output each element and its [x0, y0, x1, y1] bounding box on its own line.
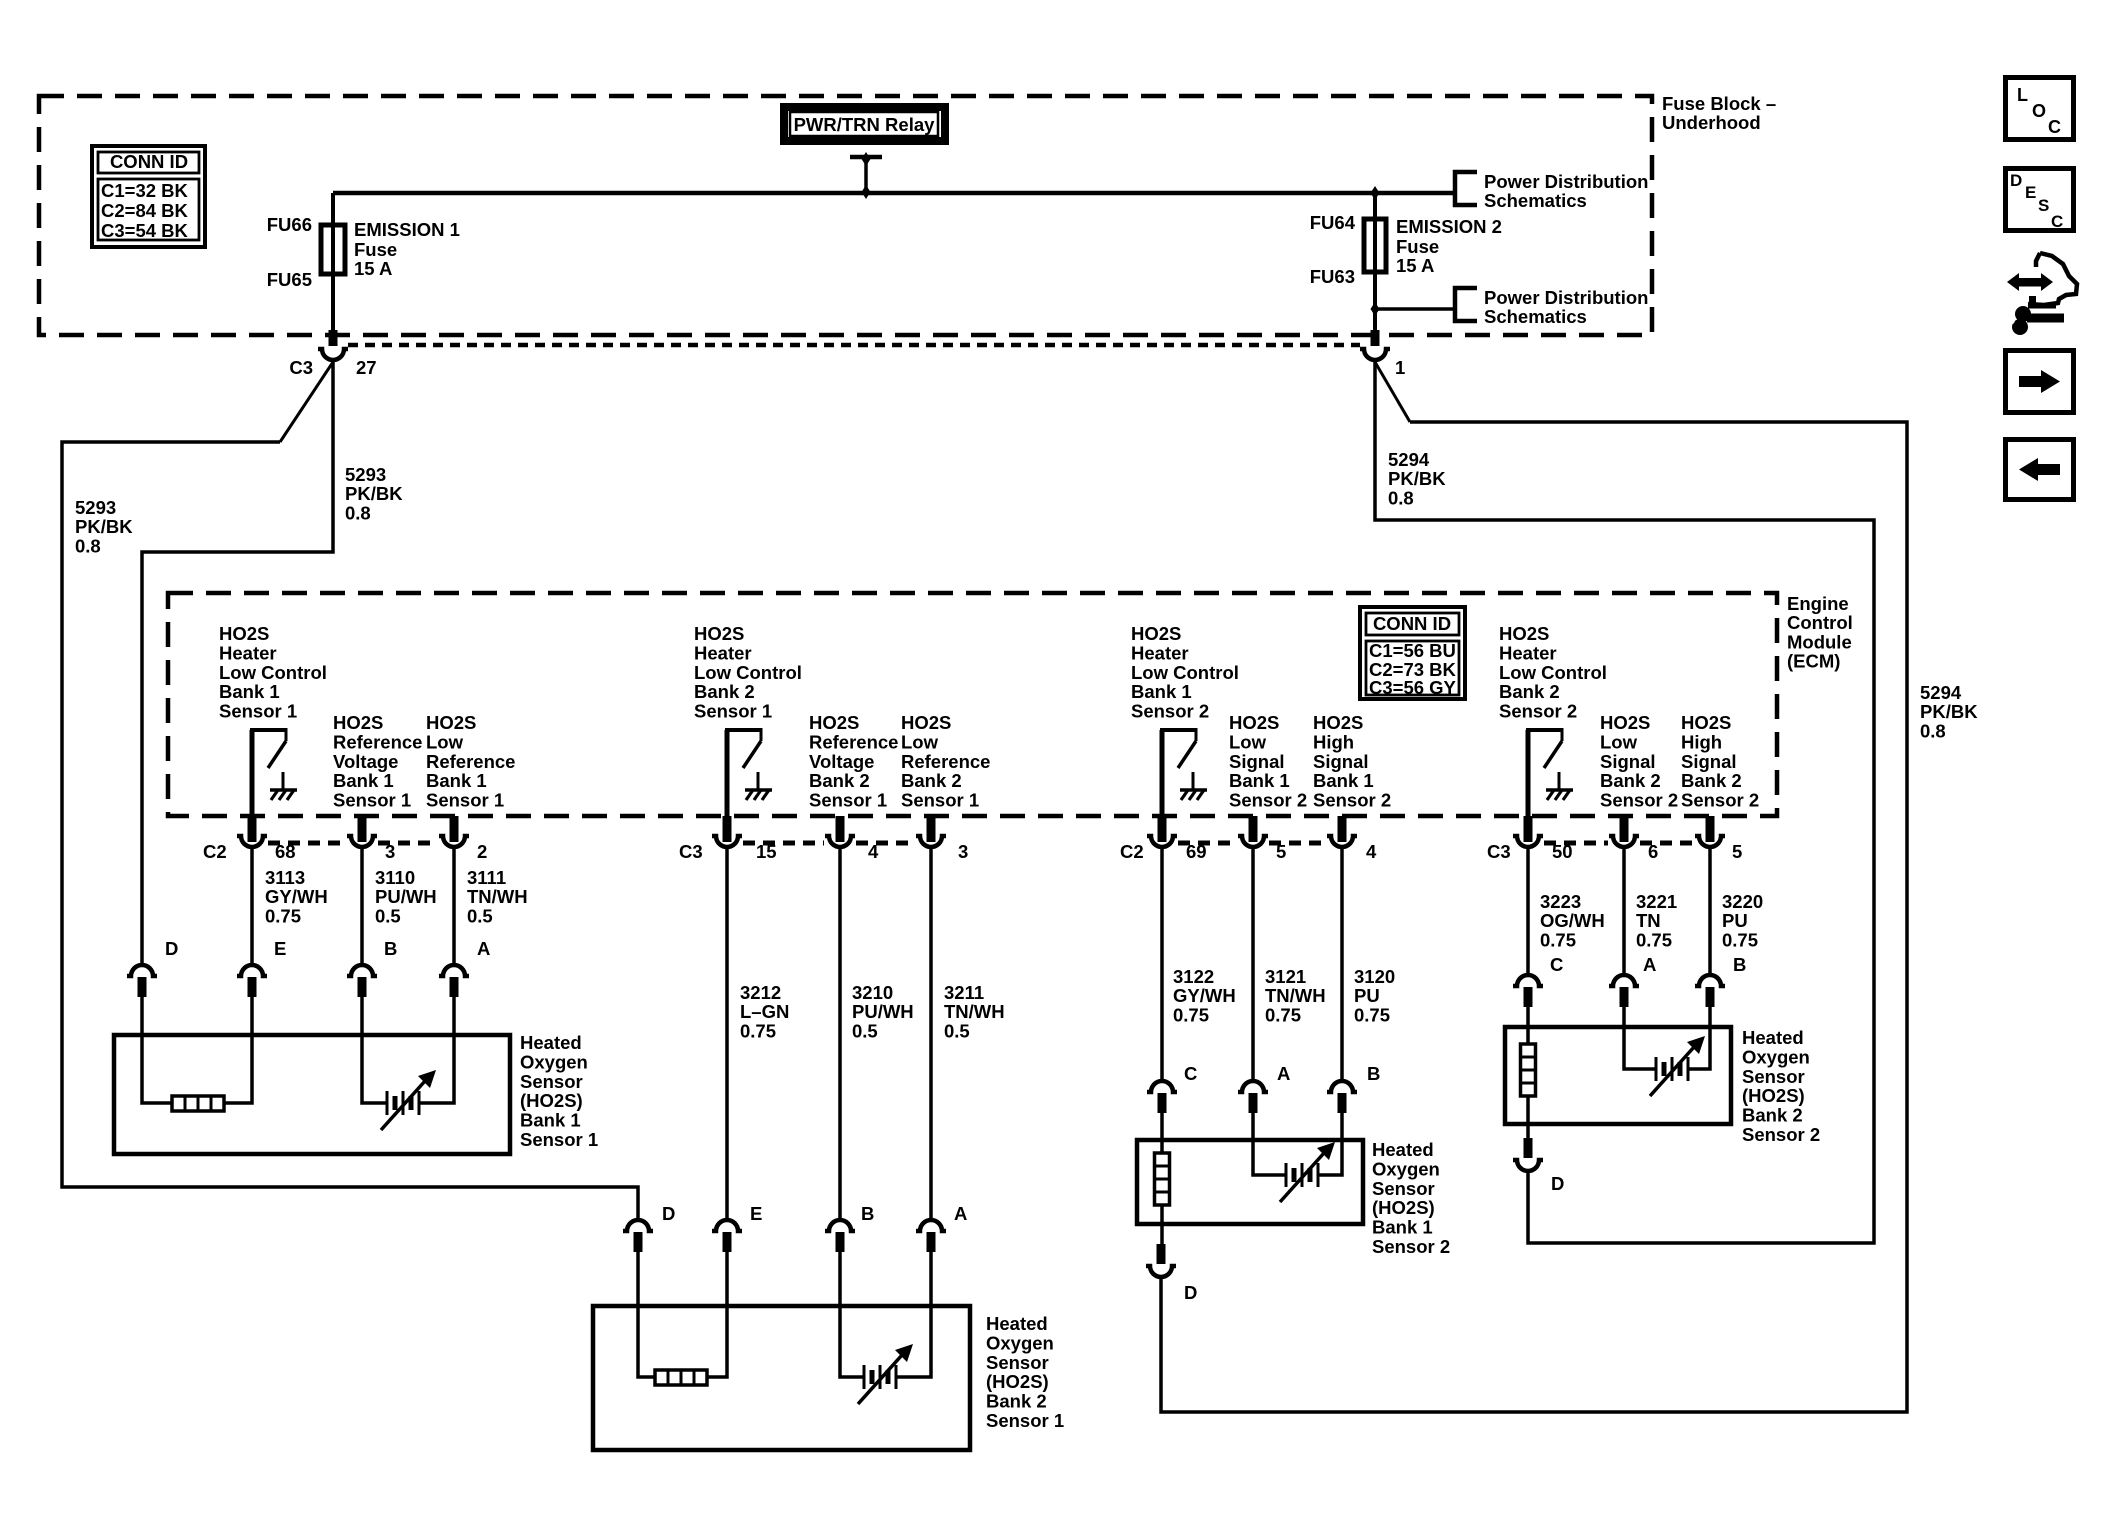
sense cell B2S2	[1650, 1036, 1705, 1096]
svg-text:Reference: Reference	[809, 731, 898, 752]
svg-text:HO2S: HO2S	[333, 712, 383, 733]
label HO2S Low Reference Bank 2 Sensor 1	[901, 712, 990, 811]
connector D (B2S1) cap	[623, 1220, 653, 1231]
label HO2S Heater Low Control Bank 2 Sensor 2	[1499, 623, 1607, 722]
svg-text:Signal: Signal	[1681, 751, 1737, 772]
svg-text:Bank 2: Bank 2	[1499, 681, 1560, 702]
label B (B2S2)	[1733, 954, 1746, 975]
svg-text:(HO2S): (HO2S)	[520, 1090, 583, 1111]
svg-text:0.5: 0.5	[944, 1020, 970, 1041]
label B (B1S1)	[384, 938, 397, 959]
svg-text:5294: 5294	[1388, 449, 1430, 470]
sensor box HO2S Bank 2 Sensor 2	[1505, 1027, 1731, 1124]
label pin 4	[868, 841, 879, 862]
svg-text:A: A	[1643, 954, 1656, 975]
label Heated Oxygen Sensor (HO2S) Bank 2 Sensor 2	[1742, 1027, 1820, 1145]
connector B (B2S2) stub	[1706, 987, 1715, 1007]
svg-text:Module: Module	[1787, 631, 1852, 652]
svg-text:Bank 1: Bank 1	[520, 1110, 581, 1131]
wire C through B2S2	[1526, 1096, 1530, 1138]
connector X pin 1 cup	[1360, 349, 1390, 360]
svg-text:Engine: Engine	[1787, 593, 1849, 614]
svg-text:0.75: 0.75	[1265, 1004, 1301, 1025]
svg-text:Sensor 1: Sensor 1	[333, 790, 411, 811]
connector E (B1S1) cap	[237, 965, 267, 976]
svg-text:C3: C3	[679, 841, 703, 862]
label C2 (left)	[203, 841, 227, 862]
svg-text:Low: Low	[1229, 731, 1267, 752]
svg-text:Underhood: Underhood	[1662, 112, 1761, 133]
svg-text:Bank 1: Bank 1	[1313, 770, 1374, 791]
svg-text:TN/WH: TN/WH	[1265, 985, 1326, 1006]
label 3212 L-GN 0.75	[740, 982, 789, 1041]
svg-text:PK/BK: PK/BK	[345, 483, 403, 504]
svg-text:TN: TN	[1636, 910, 1661, 931]
svg-text:Power Distribution: Power Distribution	[1484, 287, 1648, 308]
svg-text:GY/WH: GY/WH	[1173, 985, 1236, 1006]
ECM pin 5 stub	[1706, 816, 1715, 842]
svg-text:5: 5	[1732, 841, 1742, 862]
svg-text:HO2S: HO2S	[1600, 712, 1650, 733]
svg-text:C1=32 BK: C1=32 BK	[101, 180, 189, 201]
svg-text:0.75: 0.75	[265, 905, 301, 926]
svg-text:EMISSION 2: EMISSION 2	[1396, 216, 1502, 237]
label 5293 PK/BK 0.8 (inner)	[345, 464, 403, 523]
svg-text:C2: C2	[203, 841, 227, 862]
svg-text:C: C	[2051, 212, 2063, 231]
svg-text:L: L	[2017, 85, 2028, 105]
svg-text:Voltage: Voltage	[333, 751, 398, 772]
svg-text:3: 3	[385, 841, 395, 862]
heater low control driver switch B2S1	[725, 728, 761, 818]
svg-text:E: E	[274, 938, 286, 959]
ECM pin 6 cup	[1609, 836, 1639, 847]
ground (ECM internal) B1S2	[1180, 772, 1207, 800]
continuation bracket power distribution lower	[1455, 288, 1477, 321]
ECM pin 5 stub	[1249, 816, 1258, 842]
wire C into B1S2	[1160, 1113, 1164, 1155]
label D (B1S2)	[1184, 1282, 1197, 1303]
connector B (B1S2) cap	[1327, 1081, 1357, 1092]
label HO2S High Signal Bank 2 Sensor 2	[1681, 712, 1759, 811]
connector D (B1S1) stub	[138, 977, 147, 997]
svg-text:Sensor: Sensor	[986, 1352, 1049, 1373]
svg-text:Sensor 2: Sensor 2	[1681, 790, 1759, 811]
connector X pin 1 stub	[1371, 330, 1380, 346]
svg-text:Bank 1: Bank 1	[333, 770, 394, 791]
svg-text:Control: Control	[1787, 612, 1853, 633]
wire 5294 diagonal branch	[1375, 362, 1410, 422]
label EMISSION 2 Fuse 15 A	[1396, 216, 1502, 276]
svg-text:Sensor 2: Sensor 2	[1742, 1124, 1820, 1145]
label 3120 PU 0.75	[1354, 966, 1395, 1025]
svg-text:C3: C3	[289, 357, 313, 378]
svg-text:0.75: 0.75	[1173, 1004, 1209, 1025]
label 3210 PU/WH 0.5	[852, 982, 914, 1041]
svg-text:0.75: 0.75	[1722, 929, 1758, 950]
svg-text:15 A: 15 A	[354, 258, 392, 279]
svg-text:3121: 3121	[1265, 966, 1306, 987]
svg-text:HO2S: HO2S	[1499, 623, 1549, 644]
connector dashed tie	[1544, 841, 1608, 846]
label HO2S Low Signal Bank 2 Sensor 2	[1600, 712, 1678, 811]
wire 3223	[1526, 848, 1530, 973]
svg-text:Low Control: Low Control	[219, 662, 327, 683]
svg-text:3220: 3220	[1722, 891, 1763, 912]
svg-text:Bank 2: Bank 2	[901, 770, 962, 791]
connector C (B2S2) cap	[1513, 975, 1543, 986]
label EMISSION 1 Fuse 15 A	[354, 219, 460, 279]
ECM C2 pin 68 stub	[248, 816, 257, 842]
svg-text:5293: 5293	[75, 497, 116, 518]
label C3 (right)	[1487, 841, 1511, 862]
label FU64	[1310, 212, 1356, 233]
svg-text:Heater: Heater	[219, 642, 277, 663]
label HO2S Reference Voltage Bank 1 Sensor 1	[333, 712, 422, 811]
svg-text:Bank 2: Bank 2	[809, 770, 870, 791]
wire B into B1S2	[1318, 1113, 1342, 1175]
svg-text:Oxygen: Oxygen	[1372, 1158, 1440, 1179]
svg-text:4: 4	[868, 841, 879, 862]
svg-text:E: E	[750, 1203, 762, 1224]
wire 3220	[1708, 848, 1712, 973]
relay tap wire	[850, 157, 882, 193]
heater element B1S2	[1155, 1153, 1170, 1205]
label A (B1S1)	[477, 938, 490, 959]
svg-text:D: D	[165, 938, 178, 959]
label 5294 PK/BK 0.8 (upper)	[1388, 449, 1446, 508]
label A (B1S2)	[1277, 1063, 1290, 1084]
svg-text:Low: Low	[426, 731, 464, 752]
svg-text:Power Distribution: Power Distribution	[1484, 171, 1648, 192]
CONN ID table (ECM)	[1360, 607, 1465, 699]
ECM pin 3 stub	[358, 816, 367, 842]
svg-text:Signal: Signal	[1229, 751, 1285, 772]
icon vehicle outline	[2028, 253, 2077, 306]
label 3220 PU 0.75	[1722, 891, 1763, 950]
label C3	[289, 357, 313, 378]
sensor box HO2S Bank 2 Sensor 1	[593, 1306, 970, 1450]
svg-text:(HO2S): (HO2S)	[1372, 1197, 1435, 1218]
svg-text:3212: 3212	[740, 982, 781, 1003]
svg-text:PU: PU	[1354, 985, 1380, 1006]
label HO2S High Signal Bank 1 Sensor 2	[1313, 712, 1391, 811]
svg-text:Sensor 1: Sensor 1	[809, 790, 887, 811]
connector E (B1S1) stub	[248, 977, 257, 997]
wire 5293 vertical + left run	[142, 361, 333, 963]
fuse block - underhood dashed box	[39, 96, 1652, 335]
heater low control driver switch B1S1	[250, 728, 286, 818]
svg-text:PU/WH: PU/WH	[852, 1001, 914, 1022]
label 3122 GY/WH 0.75	[1173, 966, 1236, 1025]
connector D (B2S2) cup	[1513, 1160, 1543, 1171]
svg-text:27: 27	[356, 357, 377, 378]
svg-text:HO2S: HO2S	[1681, 712, 1731, 733]
svg-text:HO2S: HO2S	[694, 623, 744, 644]
svg-text:0.8: 0.8	[1920, 720, 1946, 741]
svg-text:Heated: Heated	[1742, 1027, 1804, 1048]
svg-text:Bank 1: Bank 1	[1131, 681, 1192, 702]
svg-text:C3=54 BK: C3=54 BK	[101, 220, 189, 241]
label pin 68	[275, 841, 296, 862]
label HO2S Heater Low Control Bank 1 Sensor 2	[1131, 623, 1239, 722]
svg-text:Sensor 1: Sensor 1	[694, 701, 772, 722]
label D (B2S2)	[1551, 1173, 1564, 1194]
wire 3113	[250, 848, 254, 963]
label pin 6	[1648, 841, 1658, 862]
ground (ECM internal) B2S1	[745, 772, 772, 800]
ECM pin 5 cup	[1695, 836, 1725, 847]
svg-text:PWR/TRN Relay: PWR/TRN Relay	[794, 114, 936, 135]
wire D into B1S1	[142, 997, 172, 1103]
label D (B1S1)	[165, 938, 178, 959]
ECM pin 4 cup	[1327, 836, 1357, 847]
heater low control driver switch B2S2	[1526, 728, 1562, 818]
label HO2S Heater Low Control Bank 1 Sensor 1	[219, 623, 327, 722]
label C (B1S2)	[1184, 1063, 1197, 1084]
fuse FU64/FU63 EMISSION 2	[1364, 219, 1386, 272]
svg-text:L–GN: L–GN	[740, 1001, 789, 1022]
continuation bracket power distribution upper	[1455, 172, 1477, 205]
connector dashed tie	[856, 841, 915, 846]
svg-text:Bank 1: Bank 1	[1229, 770, 1290, 791]
label HO2S Reference Voltage Bank 2 Sensor 1	[809, 712, 898, 811]
svg-text:0.5: 0.5	[467, 905, 493, 926]
svg-text:Heater: Heater	[1131, 642, 1189, 663]
wire 3212	[725, 848, 729, 1218]
CONN ID table (fuse block)	[92, 146, 205, 247]
relay K PWR/TRN Relay box	[784, 107, 945, 141]
label C2 (right)	[1120, 841, 1144, 862]
svg-text:0.5: 0.5	[375, 905, 401, 926]
svg-text:Sensor 2: Sensor 2	[1131, 701, 1209, 722]
sense cell B1S1	[381, 1070, 436, 1130]
svg-text:Signal: Signal	[1600, 751, 1656, 772]
svg-text:C3=56 GY: C3=56 GY	[1369, 677, 1457, 698]
svg-text:Heater: Heater	[1499, 642, 1557, 663]
svg-text:B: B	[1733, 954, 1746, 975]
wire 3110	[360, 848, 364, 963]
wire 5293 diagonal branch	[280, 362, 333, 442]
connector B (B2S1) stub	[836, 1232, 845, 1252]
label pin 69	[1186, 841, 1207, 862]
connector C (B1S2) stub	[1158, 1093, 1167, 1113]
svg-text:Fuse: Fuse	[1396, 236, 1439, 257]
wire 5293 outer run	[62, 442, 638, 1220]
svg-text:0.8: 0.8	[345, 502, 371, 523]
svg-text:Oxygen: Oxygen	[986, 1332, 1054, 1353]
connector row dotted line (fuse block)	[348, 343, 1360, 348]
wire E into B2S1	[707, 1252, 727, 1377]
wire E into B1S1	[224, 997, 252, 1103]
svg-text:Bank 1: Bank 1	[426, 770, 487, 791]
wire A into B1S1	[419, 997, 454, 1103]
label HO2S Low Reference Bank 1 Sensor 1	[426, 712, 515, 811]
junction diamond lower tap	[1371, 302, 1380, 316]
label Heated Oxygen Sensor (HO2S) Bank 2 Sensor 1	[986, 1313, 1064, 1431]
svg-text:15: 15	[756, 841, 777, 862]
svg-text:Bank 2: Bank 2	[986, 1391, 1047, 1412]
icon vehicle double arrow	[2007, 273, 2053, 291]
svg-text:3122: 3122	[1173, 966, 1214, 987]
wire C through B1S2	[1160, 1205, 1164, 1244]
wire 3221	[1622, 848, 1626, 973]
connector B (B1S2) stub	[1338, 1093, 1347, 1113]
wire main feed	[333, 191, 1457, 196]
heater element B2S2	[1521, 1044, 1536, 1096]
connector B (B2S2) cap	[1695, 975, 1725, 986]
label pin 50	[1552, 841, 1573, 862]
connector dashed tie	[268, 841, 346, 846]
connector D (B1S2) stub	[1157, 1244, 1166, 1264]
svg-text:Reference: Reference	[333, 731, 422, 752]
label pin 5	[1276, 841, 1286, 862]
ECM C2 pin 68 cup	[237, 836, 267, 847]
icon wrench	[2005, 306, 2064, 335]
svg-text:C2=84 BK: C2=84 BK	[101, 200, 189, 221]
label pin 15	[756, 841, 777, 862]
ground (ECM internal) B1S1	[270, 772, 297, 800]
label Heated Oxygen Sensor (HO2S) Bank 1 Sensor 2	[1372, 1139, 1450, 1257]
svg-text:(HO2S): (HO2S)	[986, 1371, 1049, 1392]
wire B into B1S1	[362, 997, 387, 1103]
label A (B2S1)	[954, 1203, 967, 1224]
label pin 4 (right)	[1366, 841, 1377, 862]
svg-text:(HO2S): (HO2S)	[1742, 1085, 1805, 1106]
svg-text:6: 6	[1648, 841, 1658, 862]
icon LOC box	[2006, 78, 2074, 140]
ground (ECM internal) B2S2	[1546, 772, 1573, 800]
ECM C3 pin 15 cup	[712, 836, 742, 847]
svg-text:Heated: Heated	[986, 1313, 1048, 1334]
connector A (B2S2) stub	[1620, 987, 1629, 1007]
wire 3111	[452, 848, 456, 963]
svg-text:C3: C3	[1487, 841, 1511, 862]
svg-text:Heated: Heated	[520, 1032, 582, 1053]
wire 3211	[929, 848, 933, 1218]
ECM dashed box	[168, 593, 1777, 816]
svg-text:HO2S: HO2S	[219, 623, 269, 644]
svg-text:O: O	[2032, 101, 2046, 121]
svg-text:PU/WH: PU/WH	[375, 886, 437, 907]
connector A (B1S2) cap	[1238, 1081, 1268, 1092]
junction diamond under relay	[862, 152, 871, 166]
connector D (B2S1) stub	[634, 1232, 643, 1252]
svg-text:1: 1	[1395, 357, 1405, 378]
svg-text:Sensor: Sensor	[1742, 1066, 1805, 1087]
label 5293 PK/BK 0.8 (outer)	[75, 497, 133, 556]
svg-text:CONN ID: CONN ID	[110, 151, 188, 172]
label Fuse Block - Underhood	[1662, 93, 1776, 133]
label 3113 GY/WH 0.75	[265, 867, 328, 926]
connector E (B2S1) stub	[723, 1232, 732, 1252]
svg-text:Heated: Heated	[1372, 1139, 1434, 1160]
svg-text:C: C	[2048, 117, 2061, 137]
svg-text:5294: 5294	[1920, 682, 1962, 703]
svg-text:TN/WH: TN/WH	[944, 1001, 1005, 1022]
svg-text:D: D	[662, 1203, 675, 1224]
connector dashed tie	[1640, 841, 1694, 846]
svg-text:D: D	[1551, 1173, 1564, 1194]
svg-text:3221: 3221	[1636, 891, 1677, 912]
connector dashed tie	[1269, 841, 1326, 846]
svg-text:0.75: 0.75	[1540, 929, 1576, 950]
svg-text:Sensor 2: Sensor 2	[1372, 1236, 1450, 1257]
label pin 5 (right)	[1732, 841, 1742, 862]
svg-text:C: C	[1550, 954, 1563, 975]
svg-text:Oxygen: Oxygen	[520, 1051, 588, 1072]
wire 5294 inner run	[1375, 361, 1874, 1243]
svg-text:3: 3	[958, 841, 968, 862]
wire A into B1S2	[1253, 1113, 1286, 1175]
label 3111 TN/WH 0.5	[467, 867, 528, 926]
label 3221 TN 0.75	[1636, 891, 1677, 950]
svg-text:A: A	[954, 1203, 967, 1224]
svg-text:0.8: 0.8	[1388, 487, 1414, 508]
svg-text:HO2S: HO2S	[1229, 712, 1279, 733]
svg-text:Bank 1: Bank 1	[219, 681, 280, 702]
wire 3121	[1251, 848, 1255, 1079]
svg-text:Low: Low	[901, 731, 939, 752]
connector C3 pin 27 stub	[329, 330, 338, 346]
svg-text:(ECM): (ECM)	[1787, 651, 1840, 672]
label A (B2S2)	[1643, 954, 1656, 975]
svg-text:Sensor 2: Sensor 2	[1229, 790, 1307, 811]
svg-text:2: 2	[477, 841, 487, 862]
connector A (B1S1) stub	[450, 977, 459, 997]
svg-text:50: 50	[1552, 841, 1573, 862]
connector A (B1S2) stub	[1249, 1093, 1258, 1113]
ECM C2 pin 69 cup	[1147, 836, 1177, 847]
svg-text:Reference: Reference	[426, 751, 515, 772]
ECM pin 4 stub	[836, 816, 845, 842]
svg-text:3113: 3113	[265, 867, 305, 888]
svg-text:Low Control: Low Control	[694, 662, 802, 683]
svg-text:B: B	[384, 938, 397, 959]
svg-text:CONN ID: CONN ID	[1373, 613, 1451, 634]
icon DESC box	[2006, 169, 2074, 232]
svg-text:3111: 3111	[467, 867, 506, 888]
label 3110 PU/WH 0.5	[375, 867, 437, 926]
svg-text:5: 5	[1276, 841, 1286, 862]
heater low control driver switch B1S2	[1160, 728, 1196, 818]
ECM pin 3 stub	[927, 816, 936, 842]
label E (B1S1)	[274, 938, 286, 959]
ECM pin 4 stub	[1338, 816, 1347, 842]
svg-text:D: D	[1184, 1282, 1197, 1303]
svg-text:A: A	[477, 938, 490, 959]
svg-text:3223: 3223	[1540, 891, 1581, 912]
svg-text:HO2S: HO2S	[1131, 623, 1181, 644]
svg-text:High: High	[1681, 731, 1722, 752]
svg-text:HO2S: HO2S	[809, 712, 859, 733]
svg-text:FU65: FU65	[267, 269, 312, 290]
label pin 3	[385, 841, 395, 862]
svg-text:Bank 2: Bank 2	[1600, 770, 1661, 791]
svg-text:Sensor: Sensor	[520, 1071, 583, 1092]
sensor box HO2S Bank 1 Sensor 2	[1137, 1140, 1363, 1224]
svg-text:E: E	[2025, 183, 2036, 202]
label FU66	[267, 214, 312, 235]
svg-text:C1=56 BU: C1=56 BU	[1369, 640, 1456, 661]
svg-text:0.5: 0.5	[852, 1020, 878, 1041]
connector A (B2S1) cap	[916, 1220, 946, 1231]
label pin 3 (mid)	[958, 841, 968, 862]
heater element B1S1	[172, 1096, 224, 1111]
svg-text:Sensor 1: Sensor 1	[219, 701, 297, 722]
svg-text:Low: Low	[1600, 731, 1638, 752]
ECM C2 pin 69 stub	[1158, 816, 1167, 842]
